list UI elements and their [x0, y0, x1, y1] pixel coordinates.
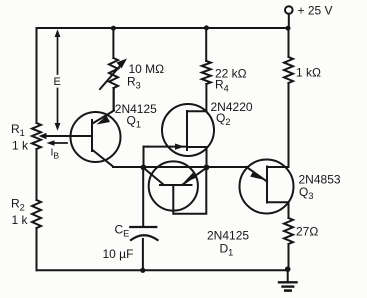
svg-text:CE: CE — [115, 223, 130, 239]
svg-text:R2: R2 — [11, 197, 25, 213]
svg-text:Q3: Q3 — [299, 185, 313, 201]
svg-text:R3: R3 — [127, 75, 141, 91]
svg-text:2N4125: 2N4125 — [115, 102, 157, 116]
svg-text:1 k: 1 k — [12, 213, 29, 227]
svg-text:IB: IB — [51, 147, 60, 161]
svg-text:10 µF: 10 µF — [103, 247, 134, 261]
svg-text:D1: D1 — [220, 242, 234, 258]
svg-text:E: E — [54, 76, 61, 88]
svg-text:+ 25 V: + 25 V — [298, 4, 333, 18]
svg-text:2N4125: 2N4125 — [207, 229, 249, 243]
svg-text:27Ω: 27Ω — [296, 225, 318, 239]
svg-text:1 k: 1 k — [12, 139, 29, 153]
svg-text:1 kΩ: 1 kΩ — [296, 66, 321, 80]
svg-text:R1: R1 — [11, 122, 25, 138]
